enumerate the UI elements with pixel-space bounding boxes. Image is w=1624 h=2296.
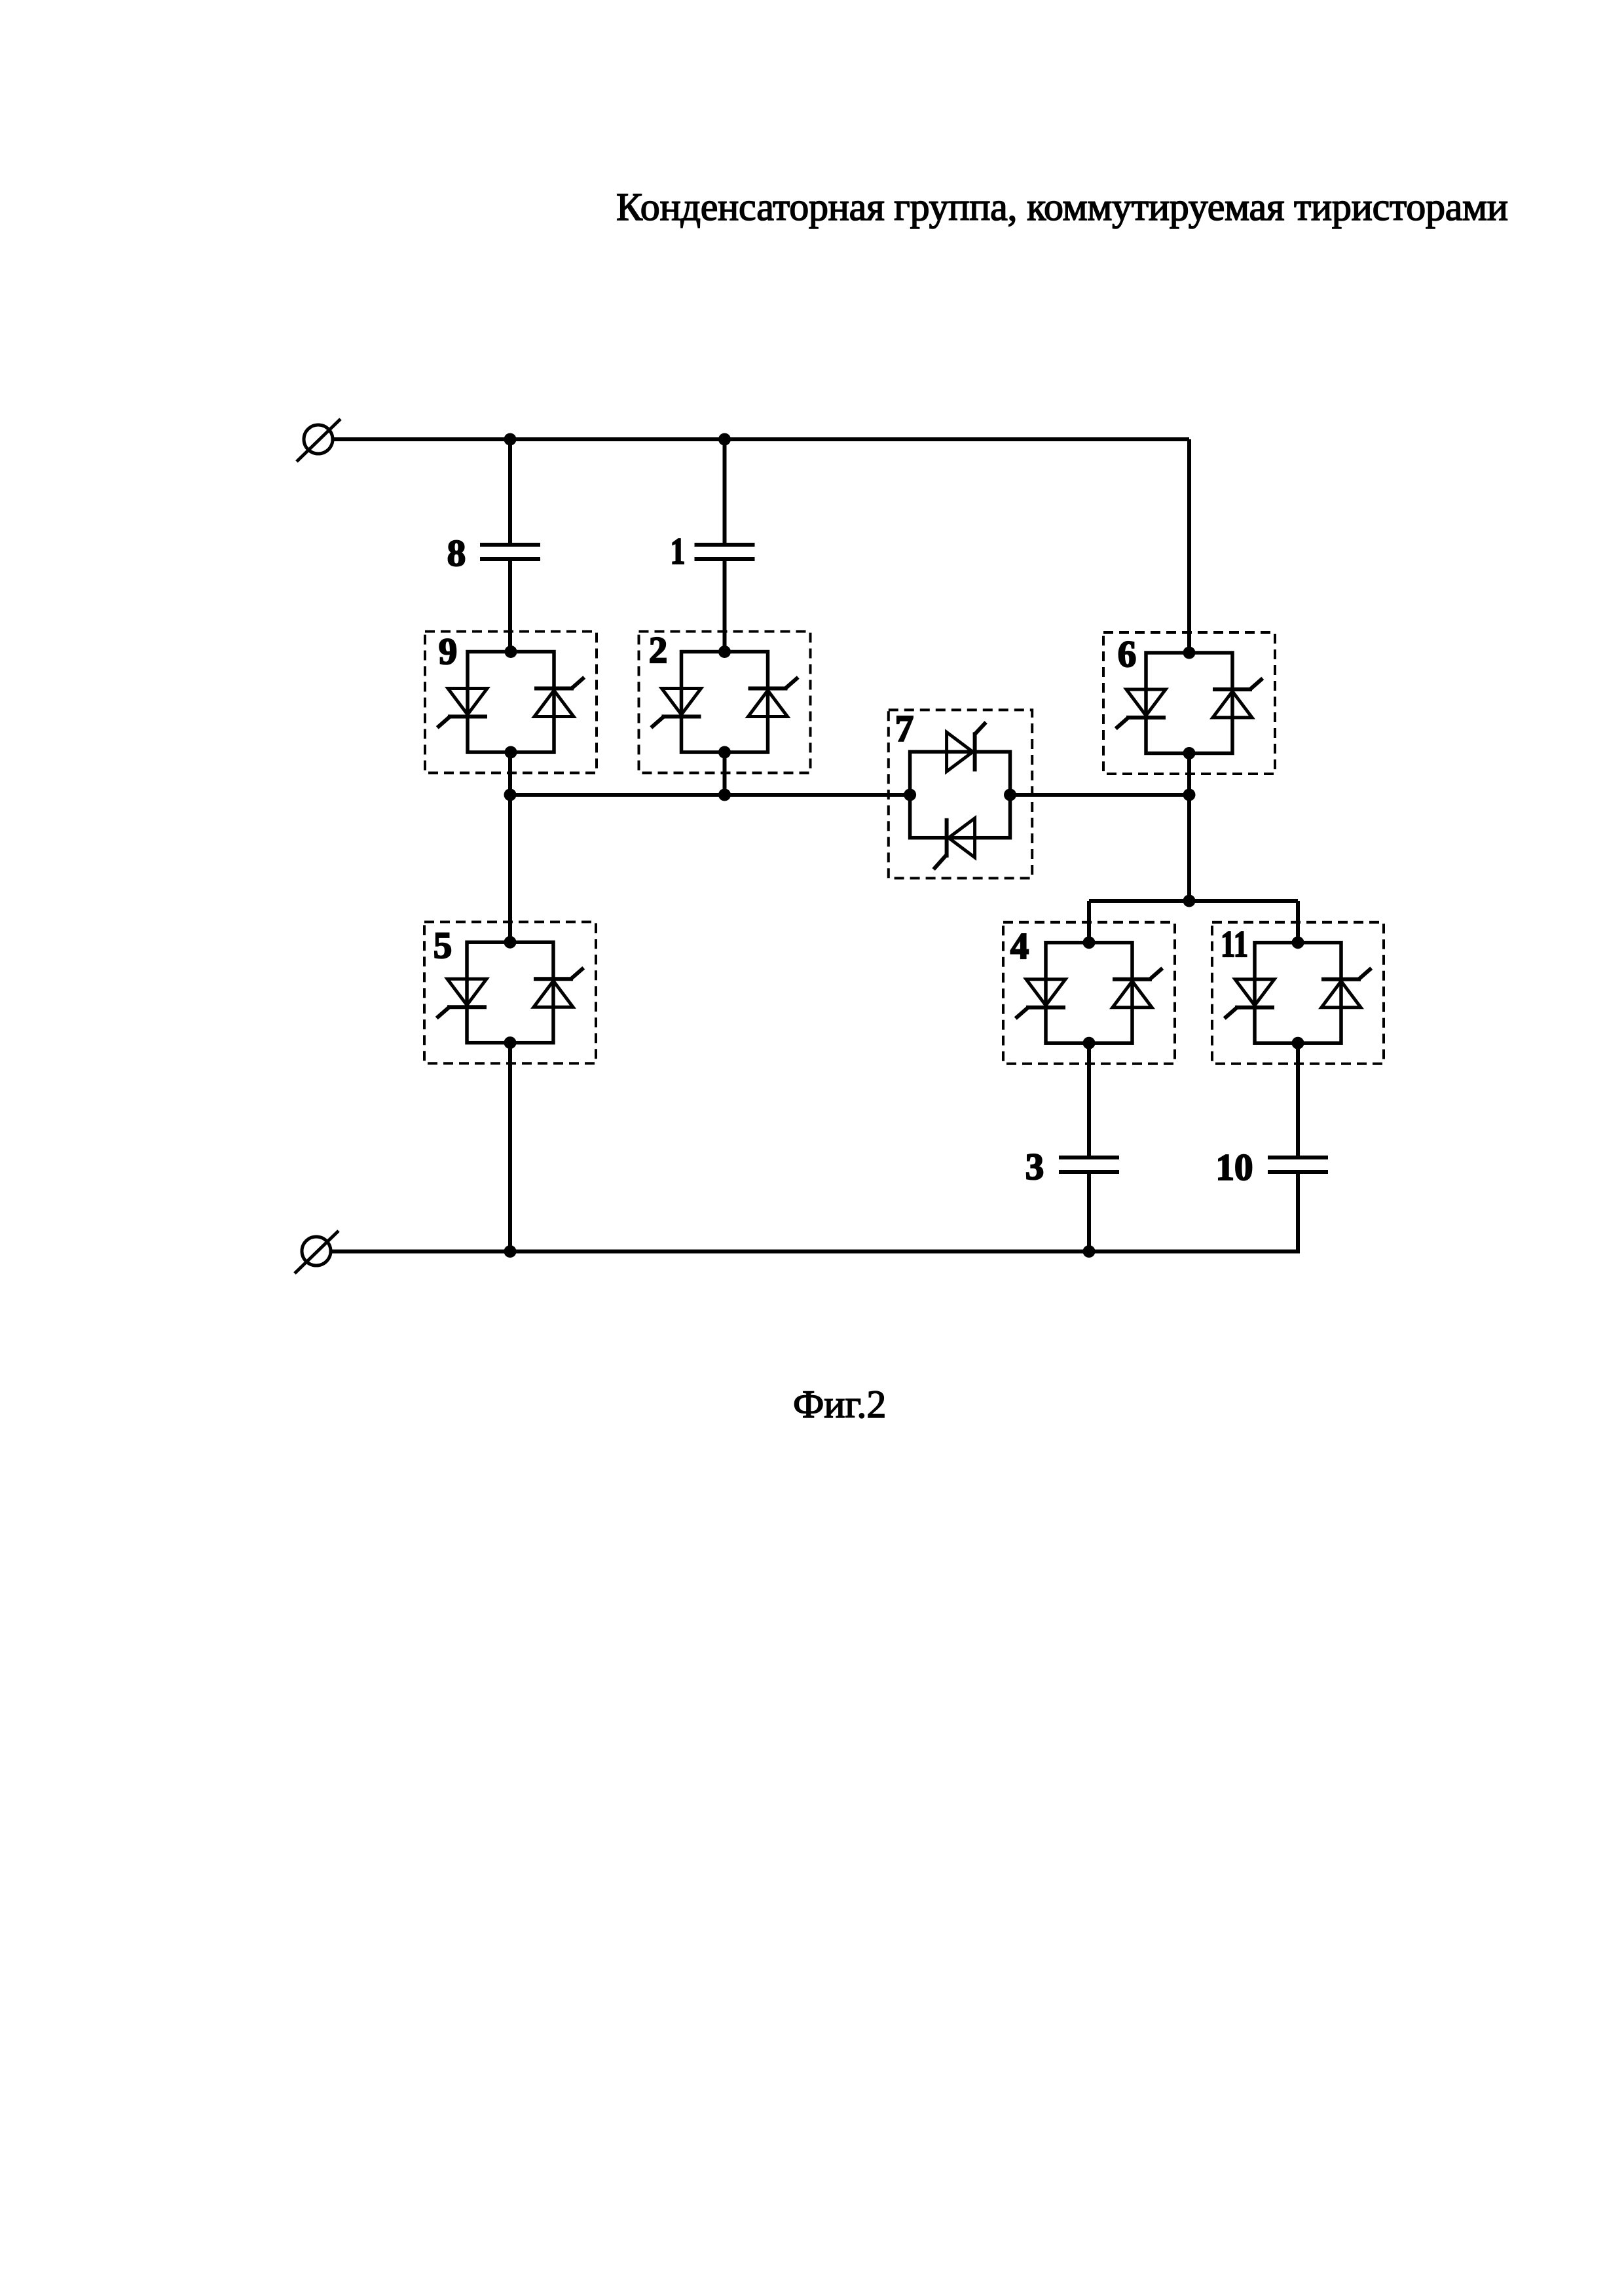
wire: top rail (510, 437, 1189, 441)
thyristor block 11: dashed box (1212, 922, 1384, 1064)
wire: top rail down to capacitor 8 (508, 439, 512, 543)
node: bus / block 6 branch junction (1183, 789, 1196, 801)
node: bottom rail / capacitor 3 junction (1083, 1245, 1096, 1258)
node: block 9 top junction (505, 646, 517, 658)
node: block 4 bottom junction (1083, 1037, 1096, 1049)
wire: block 6 bottom down through bus to 4/11 connector (1187, 753, 1191, 902)
wire: connector drop to block 4 (1087, 901, 1091, 943)
thyristor block 9: right thyristor (conducting up) (534, 679, 583, 717)
svg-text:4: 4 (1010, 926, 1029, 967)
node: top rail / capacitor 1 junction (718, 433, 731, 446)
thyristor block 9: left thyristor (conducting down) (439, 689, 487, 727)
capacitor C1: plates (695, 545, 755, 559)
node: top rail / capacitor 8 junction (504, 433, 517, 446)
wire: top rail drop to block 6 (1187, 439, 1191, 653)
thyristor block 2: dashed box (639, 632, 811, 773)
svg-text:11: 11 (1221, 924, 1248, 966)
thyristor block 7: inner loop (910, 752, 1010, 837)
node: block 2 bottom junction (718, 746, 731, 759)
thyristor block 11: inner loop (1255, 943, 1341, 1044)
svg-text:7: 7 (895, 708, 914, 750)
thyristor block 4: right thyristor (conducting up) (1113, 970, 1161, 1008)
node: block 6 top junction (1183, 647, 1196, 659)
wire: bottom rail (331, 1250, 1300, 1254)
thyristor block 4: left thyristor (conducting down) (1017, 979, 1065, 1017)
wire: block 2 bottom stub to bus (723, 752, 727, 795)
thyristor block 11: right thyristor (conducting up) (1321, 970, 1370, 1008)
wire: block 5 bottom to bottom rail (508, 1043, 512, 1252)
node: bus / block 9 branch junction (504, 789, 517, 801)
svg-text:10: 10 (1216, 1147, 1253, 1188)
thyristor block 2: inner loop (682, 652, 768, 753)
wire: top rail down to capacitor 1 (723, 439, 727, 543)
thyristor block 5: left thyristor (conducting down) (438, 979, 487, 1017)
wire: capacitor 10 to bottom rail corner (1296, 1174, 1300, 1254)
node: block 6 bottom junction (1183, 747, 1196, 759)
svg-text:6: 6 (1118, 634, 1137, 675)
capacitor C3: plates (1059, 1157, 1119, 1172)
capacitor C8: plates (480, 545, 540, 559)
node: connector / block 6 branch junction (1183, 895, 1196, 907)
svg-text:5: 5 (434, 925, 452, 966)
node: block 5 bottom junction (504, 1036, 517, 1049)
wire: connector rail above blocks 4 and 11 (1089, 899, 1298, 903)
thyristor block 7: dashed box (889, 710, 1032, 878)
thyristor block 7: bottom thyristor (conducting left) (935, 818, 975, 868)
thyristor block 9: inner loop (468, 652, 554, 753)
node: bottom rail / block 5 junction (504, 1245, 517, 1258)
svg-text:Конденсаторная группа, коммути: Конденсаторная группа, коммутируемая тир… (616, 185, 1508, 228)
wire: capacitor 8 to block 9 (508, 561, 512, 652)
svg-text:1: 1 (671, 531, 686, 572)
wire: block 11 bottom to capacitor 10 (1296, 1043, 1300, 1156)
node: block 11 top junction (1292, 936, 1304, 949)
thyristor block 7: top thyristor (conducting right) (947, 723, 985, 771)
thyristor block 6: right thyristor (conducting up) (1213, 680, 1261, 718)
thyristor block 2: left thyristor (conducting down) (653, 689, 701, 727)
svg-text:2: 2 (649, 630, 668, 671)
wire: mid bus right segment (1010, 793, 1190, 797)
wire: block 4 bottom to capacitor 3 (1087, 1043, 1091, 1156)
node: block 11 bottom junction (1292, 1037, 1304, 1049)
capacitor C10: plates (1268, 1157, 1328, 1172)
thyristor block 6: inner loop (1146, 653, 1232, 754)
thyristor block 5: dashed box (424, 922, 596, 1063)
terminal T1 (top left): circle with slash (297, 419, 341, 462)
thyristor block 4: inner loop (1046, 943, 1132, 1044)
terminal wire: top terminal to rail (333, 437, 510, 441)
node: block 9 bottom junction (505, 746, 517, 759)
thyristor block 6: left thyristor (conducting down) (1117, 689, 1166, 727)
wire: mid bus left segment (510, 793, 910, 797)
thyristor block 9: dashed box (425, 632, 597, 773)
wire: block 9 bottom down through bus to block 5 (508, 752, 512, 942)
wire: connector drop to block 11 (1296, 901, 1300, 943)
thyristor block 4: dashed box (1003, 922, 1175, 1064)
wire: capacitor 1 to block 2 (723, 561, 727, 652)
thyristor block 5: inner loop (467, 942, 553, 1043)
svg-text:3: 3 (1025, 1146, 1044, 1188)
thyristor block 5: right thyristor (conducting up) (534, 969, 582, 1007)
node: block 7 right junction (1004, 789, 1016, 801)
node: block 4 top junction (1083, 936, 1096, 949)
terminal T2 (bottom left): circle with slash (295, 1231, 339, 1273)
svg-text:Фиг.2: Фиг.2 (793, 1383, 886, 1426)
thyristor block 2: right thyristor (conducting up) (748, 679, 797, 717)
svg-text:8: 8 (447, 533, 466, 574)
node: block 7 left junction (904, 789, 916, 801)
wire: capacitor 3 to bottom rail (1087, 1174, 1091, 1252)
node: block 2 top junction (718, 646, 731, 658)
svg-text:9: 9 (439, 631, 458, 672)
node: block 5 top junction (504, 936, 517, 949)
node: bus / block 2 branch junction (718, 789, 731, 801)
thyristor block 11: left thyristor (conducting down) (1226, 979, 1274, 1017)
thyristor block 6: dashed box (1103, 632, 1275, 774)
